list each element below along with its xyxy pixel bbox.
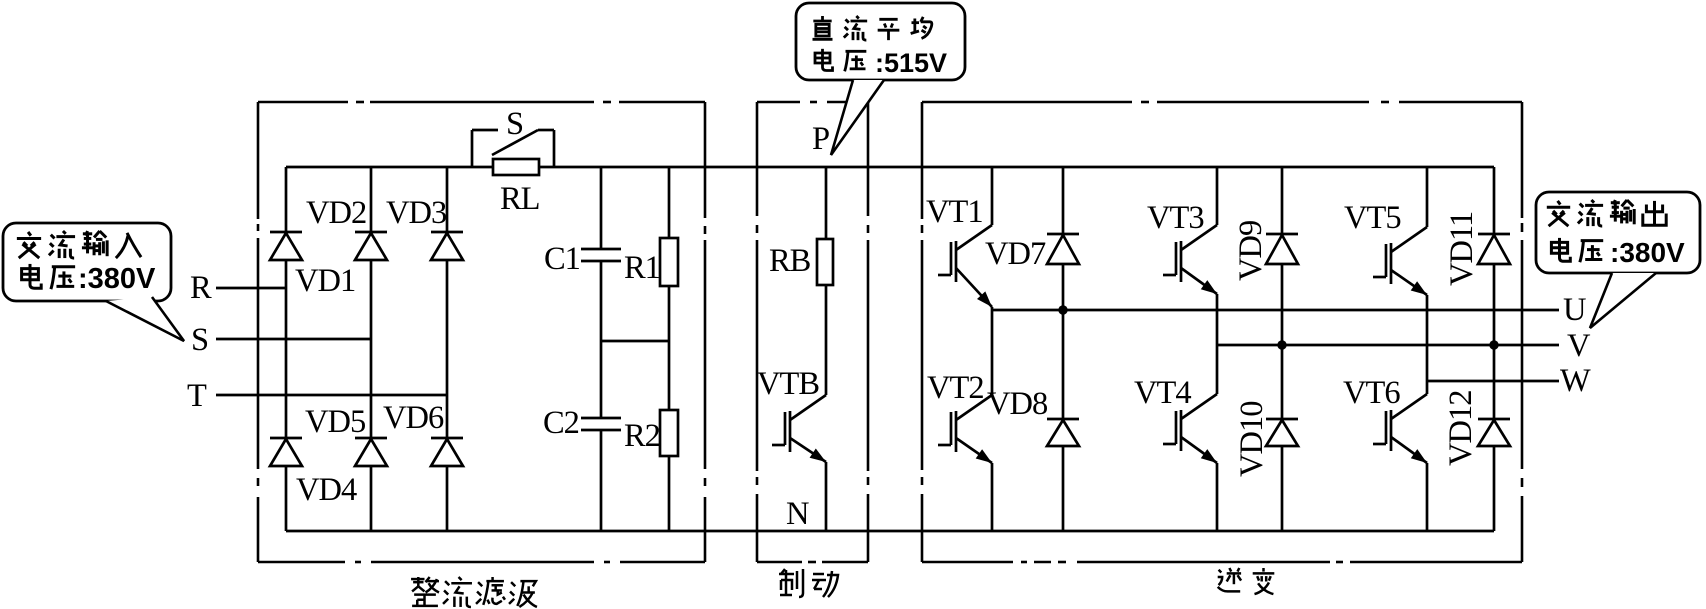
wire inverter leg A transistor column [991,167,994,225]
resistor R2 [660,410,678,456]
svg-text:R1: R1 [624,250,660,286]
callout DC average 515V [796,3,965,80]
inverter box border [922,101,1132,104]
svg-text::380V: :380V [1610,237,1685,268]
svg-text:VT2: VT2 [927,370,984,406]
svg-text:VD10: VD10 [1234,401,1270,477]
svg-text:VD11: VD11 [1444,212,1480,286]
wire P bus [286,166,493,169]
node U junction [1058,305,1067,314]
wire RB/VTB column [825,167,828,239]
resistor RB [817,239,833,285]
wire inverter leg A diode column [1062,167,1065,234]
svg-text:U: U [1563,292,1586,328]
wire C-R midpoint link [601,340,669,343]
transistor VT5 [1373,227,1427,295]
capacitor C1 [581,249,621,261]
diode VD1 [270,232,302,260]
svg-text:VT6: VT6 [1343,375,1400,411]
svg-text:VT1: VT1 [926,194,983,230]
svg-text:R2: R2 [624,418,660,454]
svg-text:VT4: VT4 [1134,375,1191,411]
transistor VT4 [1163,394,1217,463]
diode VD7 [1047,234,1079,264]
braking box border [757,101,800,104]
svg-text:RB: RB [769,243,811,279]
transistor VT1 [938,225,992,307]
wire inverter leg B transistor column [1216,167,1219,225]
wire T input [216,394,447,397]
svg-text:VD8: VD8 [987,386,1048,422]
diode VD11 [1478,234,1510,264]
svg-text::380V: :380V [78,263,156,295]
switch S [472,130,554,167]
svg-text::515V: :515V [875,48,947,78]
svg-text:VT5: VT5 [1344,200,1401,236]
node V-VD11 junction [1489,340,1498,349]
rectifier-filter box border [258,101,348,104]
diode VD5 [355,438,387,466]
resistor RL [493,159,539,175]
svg-text:VD7: VD7 [985,236,1046,272]
diode VD8 [1047,419,1079,446]
svg-text:S: S [506,106,523,142]
node V junction [1277,340,1286,349]
wire capacitor column [600,167,603,249]
svg-text:T: T [187,378,207,414]
wire U output [992,309,1559,312]
text zheng-liu-lv-bo (rectify-filter) [411,577,439,606]
diode VD10 [1266,419,1298,446]
diode VD4 [270,438,302,466]
callout AC output 380V [1536,192,1700,273]
svg-text:VTB: VTB [757,366,819,402]
wire R input [216,287,286,290]
wire inverter leg C diode column [1493,167,1496,234]
capacitor C2 [581,418,621,430]
svg-text:V: V [1567,328,1591,364]
svg-text:W: W [1560,363,1591,399]
callout AC input 380V [3,223,171,301]
svg-text:VD3: VD3 [386,195,446,231]
svg-text:RL: RL [500,181,540,217]
wire rectifier leg 1 [285,167,288,232]
svg-text:VD4: VD4 [296,472,357,508]
text zhi-liu-ping-jun [812,16,832,39]
svg-text:VD1: VD1 [295,263,355,299]
wire rectifier leg 3 [446,167,449,232]
svg-text:VD9: VD9 [1233,221,1269,281]
svg-text:C1: C1 [544,241,580,277]
text ni-bian (invert) [1218,568,1241,591]
svg-text:VD12: VD12 [1443,391,1479,466]
svg-text:N: N [786,496,809,532]
wire N bus [286,530,1494,533]
transistor VT6 [1373,394,1427,463]
diode VD12 [1478,419,1510,446]
wire rectifier leg 2 [370,167,373,232]
diode VD6 [431,438,463,466]
svg-text:VT3: VT3 [1147,200,1204,236]
wire S input [216,338,371,341]
svg-text:R: R [190,270,212,306]
transistor VT2 [938,395,992,463]
svg-text:VD6: VD6 [383,400,444,436]
transistor VTB [772,395,826,462]
text zhi-dong (braking) [779,569,803,597]
wire V output [1217,344,1559,347]
diode VD3 [431,232,463,260]
svg-text:C2: C2 [543,405,579,441]
transistor VT3 [1163,225,1217,294]
diode VD2 [355,232,387,260]
wire inverter leg C transistor column [1426,167,1429,227]
wire inverter leg B diode column [1281,167,1284,234]
svg-text:S: S [191,322,208,358]
svg-text:VD2: VD2 [306,195,366,231]
text jiao-liu-shu-ru [17,232,41,258]
diode VD9 [1266,234,1298,264]
wire W output [1427,380,1559,383]
svg-text:VD5: VD5 [305,404,365,440]
resistor R1 [660,238,678,286]
text jiao-liu-shu-chu [1547,201,1570,226]
svg-text:P: P [812,121,829,157]
wire resistor column [668,167,671,238]
